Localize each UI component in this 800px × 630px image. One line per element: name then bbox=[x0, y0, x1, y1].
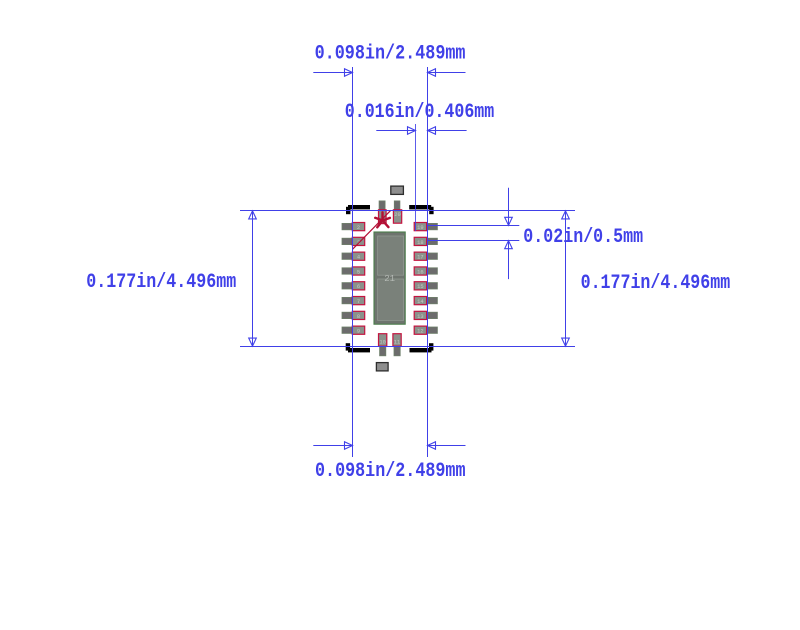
pin-1 polarity diagonal line bbox=[353, 210, 391, 249]
silkscreen corner bottom-right bbox=[410, 343, 434, 352]
pad 12 (right row) bbox=[414, 326, 437, 335]
silkscreen corner top-left bbox=[346, 205, 370, 214]
silkscreen corner top-right bbox=[409, 205, 433, 214]
bottom width dimension arrows (0.098in) bbox=[313, 442, 465, 450]
svg-text:0.02in/0.5mm: 0.02in/0.5mm bbox=[523, 226, 643, 249]
pad pitch dimension arrows (0.02in) bbox=[505, 188, 513, 279]
svg-text:0.177in/4.496mm: 0.177in/4.496mm bbox=[86, 271, 236, 294]
svg-text:0.098in/2.489mm: 0.098in/2.489mm bbox=[315, 43, 466, 66]
pad 9 (left row) bbox=[342, 326, 365, 335]
svg-text:16: 16 bbox=[417, 269, 423, 275]
pad 13 (right row) bbox=[414, 311, 437, 320]
pad pitch reference line lower (y=240.2) bbox=[427, 240, 519, 242]
pad 10 (bottom-left vertical) bbox=[379, 334, 387, 356]
svg-text:17: 17 bbox=[417, 255, 423, 261]
svg-text:12: 12 bbox=[417, 329, 423, 335]
pad 19 (right row) bbox=[414, 223, 437, 232]
right height dimension line (0.177in) bbox=[562, 211, 570, 346]
svg-text:8: 8 bbox=[357, 314, 360, 320]
pad 16 (right row) bbox=[414, 267, 437, 276]
pad 3 (left row) bbox=[342, 237, 365, 246]
svg-text:2: 2 bbox=[357, 225, 360, 231]
pad 14 (right row) bbox=[414, 297, 437, 306]
svg-text:5: 5 bbox=[357, 269, 360, 275]
svg-text:19: 19 bbox=[417, 225, 423, 231]
extension line top horizontal (y=210.5) bbox=[240, 210, 575, 212]
pad 2 (left row) bbox=[342, 223, 365, 232]
svg-text:13: 13 bbox=[417, 314, 423, 320]
bottom fiducial marker rectangle bbox=[376, 363, 388, 371]
pad 1 (top-left vertical) bbox=[379, 201, 387, 224]
svg-text:11: 11 bbox=[394, 340, 400, 346]
svg-text:4: 4 bbox=[357, 255, 360, 261]
svg-text:9: 9 bbox=[357, 329, 360, 335]
pad 20 (top-right vertical) bbox=[393, 201, 401, 223]
svg-text:6: 6 bbox=[357, 284, 360, 290]
pad 21 (central thermal pad) bbox=[374, 232, 405, 324]
pin-1 side fiducial marker (top rectangle) bbox=[391, 186, 404, 194]
silkscreen corner bottom-left bbox=[346, 343, 370, 352]
extension line right vertical (x=427.5) bbox=[427, 67, 429, 457]
pad 6 (left row) bbox=[342, 282, 365, 291]
svg-text:0.016in/0.406mm: 0.016in/0.406mm bbox=[345, 101, 494, 124]
pad pitch reference line upper (y=225.6) bbox=[427, 225, 519, 227]
svg-text:18: 18 bbox=[417, 240, 423, 246]
pad 17 (right row) bbox=[414, 252, 437, 261]
svg-text:7: 7 bbox=[357, 299, 360, 305]
top width dimension arrows (0.098in) bbox=[313, 69, 465, 77]
pad 5 (left row) bbox=[342, 267, 365, 276]
extension line left vertical (x=352) bbox=[352, 67, 354, 457]
pad 4 (left row) bbox=[342, 252, 365, 261]
extension line short vertical (x=415.3) bbox=[415, 124, 417, 231]
svg-text:0.098in/2.489mm: 0.098in/2.489mm bbox=[315, 460, 466, 483]
pad length dimension arrows (0.016in) bbox=[376, 127, 466, 135]
pad 11 (bottom-right vertical) bbox=[393, 334, 401, 356]
svg-text:21: 21 bbox=[384, 274, 395, 284]
svg-text:15: 15 bbox=[417, 284, 423, 290]
svg-text:14: 14 bbox=[417, 299, 423, 305]
pad 15 (right row) bbox=[414, 282, 437, 291]
svg-text:10: 10 bbox=[379, 340, 385, 346]
pad 8 (left row) bbox=[342, 311, 365, 320]
svg-text:0.177in/4.496mm: 0.177in/4.496mm bbox=[581, 272, 731, 295]
pad 7 (left row) bbox=[342, 297, 365, 306]
extension line bottom horizontal (y=346.2) bbox=[240, 346, 575, 348]
svg-text:20: 20 bbox=[394, 212, 400, 218]
pin-1 asterisk marker bbox=[375, 212, 390, 227]
pad 18 (right row) bbox=[414, 237, 437, 246]
left height dimension line (0.177in) bbox=[249, 211, 257, 346]
